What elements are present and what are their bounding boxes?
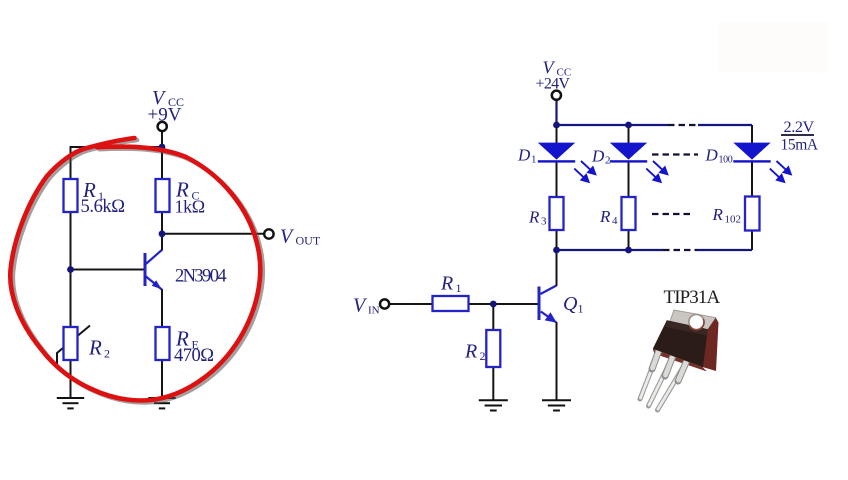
svg-text:R: R — [440, 273, 453, 295]
svg-text:Q: Q — [563, 293, 578, 315]
svg-text:TIP31A: TIP31A — [664, 287, 721, 308]
svg-text:D: D — [591, 147, 605, 166]
svg-text:2: 2 — [104, 347, 110, 361]
svg-text:102: 102 — [725, 214, 742, 226]
svg-text:D: D — [517, 146, 531, 165]
svg-text:5.6kΩ: 5.6kΩ — [81, 197, 125, 217]
svg-text:V: V — [353, 295, 368, 317]
svg-text:R: R — [464, 341, 477, 363]
svg-text:OUT: OUT — [296, 234, 321, 248]
svg-text:4: 4 — [612, 215, 618, 227]
svg-text:3: 3 — [541, 216, 547, 228]
svg-text:2: 2 — [480, 349, 486, 363]
svg-text:2: 2 — [605, 155, 611, 167]
svg-text:470Ω: 470Ω — [174, 346, 214, 366]
svg-text:V: V — [543, 58, 556, 78]
svg-text:1kΩ: 1kΩ — [175, 197, 205, 217]
svg-text:2N3904: 2N3904 — [175, 267, 226, 287]
svg-text:V: V — [280, 226, 295, 248]
svg-text:100: 100 — [719, 155, 733, 166]
svg-text:1: 1 — [531, 154, 537, 166]
svg-text:2.2V: 2.2V — [784, 118, 815, 136]
svg-text:R: R — [88, 336, 102, 360]
svg-text:R: R — [599, 207, 611, 226]
svg-text:1: 1 — [578, 302, 584, 316]
svg-text:+9V: +9V — [148, 105, 182, 126]
svg-text:IN: IN — [368, 305, 380, 317]
svg-text:D: D — [705, 146, 719, 165]
svg-text:R: R — [528, 208, 540, 227]
svg-text:+24V: +24V — [536, 76, 571, 93]
svg-text:R: R — [712, 205, 724, 224]
svg-text:1: 1 — [456, 281, 462, 295]
svg-text:15mA: 15mA — [781, 137, 819, 154]
